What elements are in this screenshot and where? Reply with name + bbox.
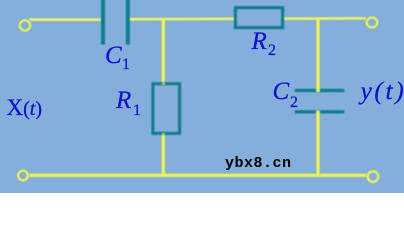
svg-text:2: 2 bbox=[268, 42, 276, 59]
svg-text:C: C bbox=[105, 42, 122, 69]
svg-text:R: R bbox=[251, 28, 267, 55]
svg-text:ybx8.cn: ybx8.cn bbox=[225, 155, 292, 172]
svg-text:2: 2 bbox=[290, 94, 298, 111]
svg-text:y(t): y(t) bbox=[358, 76, 404, 105]
svg-text:X(t): X(t) bbox=[7, 95, 43, 120]
svg-text:C: C bbox=[273, 78, 290, 105]
svg-text:1: 1 bbox=[133, 102, 141, 119]
svg-text:R: R bbox=[115, 87, 131, 114]
svg-text:1: 1 bbox=[122, 56, 130, 73]
